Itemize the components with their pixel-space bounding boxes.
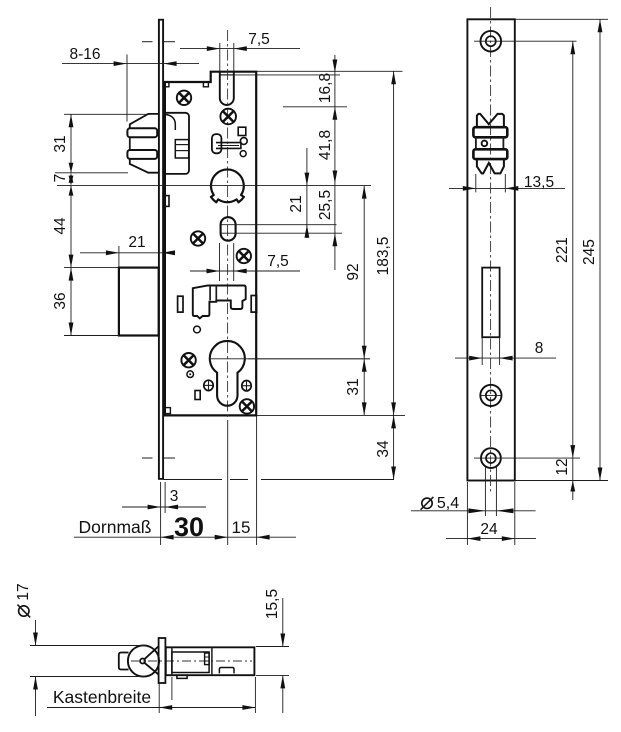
case bottom-left notch (165, 408, 170, 414)
ext faceplate top (516, 18, 609, 20)
vertical centerline of lock axis (227, 30, 229, 420)
tiny circle at lever end (240, 151, 246, 157)
follower horizontal centerline (57, 185, 371, 187)
ext case top (257, 70, 403, 72)
oval hole below follower (221, 217, 236, 241)
middle screw hole (480, 385, 501, 406)
dim 36 left (70, 268, 72, 336)
rectangular cutout (482, 268, 499, 338)
follower nut (front of plate) (130, 114, 159, 128)
svg-text:30: 30 (174, 512, 204, 542)
dim 25,5 (334, 184, 336, 271)
dim 92 (363, 186, 365, 359)
svg-text:245: 245 (581, 239, 598, 265)
small tab below case (177, 675, 187, 678)
svg-text:92: 92 (345, 263, 362, 280)
screw position marks on faceplate (142, 41, 153, 43)
ext faceplate bottom right (516, 480, 609, 482)
follower nut body behind plate (165, 113, 189, 174)
dim 8-16 (62, 63, 199, 65)
case (top view) (166, 647, 255, 675)
svg-text:41,8: 41,8 (317, 130, 334, 160)
dim 7 left (69, 173, 74, 183)
bottom view centerline (131, 660, 252, 662)
svg-text:21: 21 (128, 234, 145, 251)
svg-text:7,5: 7,5 (248, 31, 270, 48)
spring lever parts (212, 134, 222, 153)
inner mechanism rect (172, 652, 209, 673)
dim 183,5 (393, 71, 395, 415)
svg-text:Dornmaß: Dornmaß (79, 517, 152, 537)
dim 15 (257, 535, 270, 540)
svg-text:15: 15 (232, 518, 251, 537)
lock case outline (165, 72, 256, 416)
latch head round (128, 645, 159, 676)
dim 245 (599, 19, 601, 480)
svg-text:24: 24 (480, 521, 498, 538)
latch pivot dot (140, 659, 145, 664)
ext faceplate bottom (163, 479, 222, 481)
small bump right section (219, 668, 234, 674)
spool middle (475, 137, 477, 149)
tiny detail circle (187, 371, 194, 378)
deadbolt (thrown) (119, 268, 159, 336)
dim 34 (393, 415, 395, 479)
svg-text:15,5: 15,5 (264, 589, 281, 619)
top screw hole (481, 31, 502, 52)
latch cam piece mid case (193, 286, 246, 319)
svg-text:221: 221 (554, 237, 571, 263)
euro profile cylinder hole (210, 341, 245, 406)
spool band 1 (473, 127, 507, 137)
dim 31 lower right (363, 359, 365, 416)
svg-text:17: 17 (15, 583, 32, 600)
small rect near cylinder (195, 391, 200, 400)
handle follower hole (211, 169, 244, 202)
svg-text:31: 31 (345, 378, 362, 395)
dim 3 (160, 482, 162, 529)
dim 30 bold (160, 529, 162, 545)
svg-text:183,5: 183,5 (375, 237, 392, 276)
svg-text:8-16: 8-16 (69, 46, 100, 63)
small tab on case left edge (164, 196, 169, 207)
small circle pin (240, 138, 247, 145)
dim 24 (466, 482, 468, 545)
dim 12 (572, 458, 574, 500)
dim dia 5,4 (484, 467, 486, 516)
case divider (211, 647, 213, 675)
cylinder fixing cross holes (204, 380, 213, 390)
dim 21 horizontal (80, 252, 172, 254)
dim 7,5 lower (190, 270, 300, 272)
svg-text:34: 34 (375, 440, 392, 458)
bottom screw hole (481, 448, 501, 468)
svg-text:16,8: 16,8 (317, 73, 334, 103)
svg-text:36: 36 (52, 292, 69, 309)
ext case bottom (257, 414, 405, 416)
svg-text:Kastenbreite: Kastenbreite (53, 687, 151, 707)
ext latch top (235, 74, 341, 76)
svg-text:8: 8 (535, 340, 544, 357)
svg-text:12: 12 (554, 458, 571, 475)
small square pin (238, 127, 246, 135)
svg-text:13,5: 13,5 (524, 174, 554, 191)
svg-text:31: 31 (52, 135, 69, 152)
dim 16,8 (334, 55, 336, 107)
latch top inside slot (220, 74, 234, 76)
dim 41,8 (334, 107, 336, 184)
dim 31 left (64, 113, 150, 115)
dim 8 (481, 337, 483, 365)
faceplate (top view) (159, 638, 166, 683)
spool band 2 (473, 149, 507, 159)
spool bottom section (477, 159, 504, 173)
dim 7,5 top (180, 48, 300, 50)
faceplate centerline (490, 7, 492, 492)
svg-text:44: 44 (52, 217, 69, 235)
latch opening spool: top section (477, 114, 504, 127)
dim 44 left (70, 186, 72, 268)
top latch slot (220, 72, 234, 105)
latch tip block (119, 653, 129, 670)
faceplate front outline (467, 19, 514, 480)
svg-text:7: 7 (52, 174, 69, 183)
svg-text:3: 3 (170, 488, 179, 505)
latch side slots (178, 296, 183, 312)
tiny circle above (194, 326, 201, 333)
svg-text:21: 21 (288, 195, 305, 212)
faceplate (side view, Stulp) (158, 20, 160, 480)
dim 221 (572, 41, 574, 458)
ext slot bottom (283, 106, 347, 108)
case top small notches (165, 82, 169, 87)
svg-text:7,5: 7,5 (267, 253, 289, 270)
svg-text:5,4: 5,4 (437, 495, 459, 512)
dim 13,5 (475, 174, 477, 192)
svg-text:25,5: 25,5 (317, 190, 334, 220)
dim 21 right (306, 148, 308, 238)
latch bevel V (144, 646, 158, 674)
case screws (phillips) (177, 91, 191, 105)
